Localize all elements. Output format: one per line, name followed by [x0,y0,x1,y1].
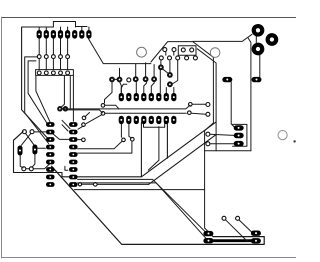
trapezoid circle stubs [165,52,167,56]
outline right of loop [76,26,88,28]
pad [69,152,78,157]
pad [69,122,78,127]
via [101,112,105,116]
wire [120,82,122,93]
circle stubs bottom right [226,220,248,241]
circles near right box [188,103,210,146]
left vertical trace 2 [25,57,49,144]
drill hole [278,131,287,140]
pad [69,182,78,187]
vertical oval pads left [18,145,38,156]
wire [38,147,46,149]
via [181,48,185,52]
right side verticals [205,58,214,237]
wire [119,68,121,77]
wire [34,131,46,133]
diagonal pad8 to mid horizontal [89,39,151,64]
via [29,167,33,171]
donut pad [118,78,122,82]
donut row stubs up [135,64,137,77]
pad [164,116,169,124]
wire [153,65,155,78]
donut pad [110,78,114,82]
pad [46,152,55,157]
wire [52,39,54,55]
pad holes [226,79,228,81]
wire [53,134,69,140]
pad [69,167,78,172]
wire [78,183,206,238]
via [94,183,98,187]
wire from left pad down to box pad [231,82,235,128]
frame left [1,17,3,258]
DIP top stubs [121,84,127,93]
wire [88,27,90,31]
pad [222,77,232,82]
black bus line [209,239,257,242]
pad holes [120,119,122,121]
pour outline left box [14,132,142,177]
left big cluster columns [46,122,55,187]
pad [171,93,176,101]
via [22,130,26,134]
big drill holes [137,47,220,57]
pad [134,93,139,101]
pad [69,130,78,135]
via [122,138,126,142]
via [159,56,163,60]
via [206,103,210,107]
pad [72,30,77,39]
wire [173,52,175,56]
pad [234,141,244,146]
pad [46,122,55,127]
wire [98,183,149,185]
pad holes [19,150,21,152]
via [131,137,135,141]
pad row 1: 8 vertical oval pads y=34.3 [37,30,92,39]
wire [145,63,147,77]
wire [192,103,205,105]
via [64,107,68,111]
wire [239,220,253,233]
pad [46,175,55,180]
wire [81,27,83,31]
pad [69,145,78,150]
bottom horizontal runs [78,179,206,231]
pad [69,160,78,165]
wire [85,113,90,117]
wire [135,82,137,94]
via [163,48,167,52]
wire [62,120,70,128]
small circles left cluster [22,104,134,187]
via row stubs to ladder [38,59,40,70]
inner box around pads [233,124,247,146]
pad [164,93,169,101]
line to donut1 [193,34,252,41]
via [188,111,192,115]
wire [172,60,178,84]
donut pad [159,65,163,69]
pad [156,93,161,101]
pad [46,167,55,172]
wire [67,59,69,70]
pad [46,137,55,142]
pad [251,231,261,236]
trace loop over pads3-6 [53,22,75,28]
big donut pads top right [254,26,276,53]
wire [120,124,122,137]
wire [69,76,71,109]
via [236,216,240,220]
wire [26,168,29,170]
donut pad [254,26,263,35]
ring pads mid-left [58,107,67,111]
wire [78,139,81,141]
pad [156,116,161,124]
wire [197,49,216,151]
wire [65,166,68,170]
pad [119,93,124,101]
wire [105,82,113,103]
donut pad [152,77,156,81]
wire [32,155,35,168]
wire [72,76,74,121]
via [137,47,147,57]
wire [169,61,171,73]
pad [119,116,124,124]
via [82,138,86,142]
frame top [2,17,296,19]
pour diagonal A [142,122,216,177]
via [22,167,26,171]
wire [159,69,161,93]
wire [165,88,167,94]
pad [203,238,213,243]
via [206,132,210,136]
wire [45,59,47,70]
via [222,216,226,220]
pad [203,231,213,236]
via [82,116,86,120]
pad [141,116,146,124]
wire [160,60,162,65]
wire [67,27,69,31]
pad [126,93,131,101]
trapezoid circles [159,48,197,60]
right box bottom [205,150,251,152]
wire [210,143,234,145]
middle horizontal run A [62,105,190,109]
via [78,183,81,186]
pad [32,145,37,155]
pad [126,116,131,124]
wire [52,59,54,70]
wire [162,69,168,74]
via row y=56.6 [37,55,69,59]
donut pad [127,78,131,82]
wire [14,132,24,141]
pour descent from DIP [166,124,168,158]
pad [46,182,55,187]
pad holes [72,124,74,126]
wire [60,59,62,70]
via [293,140,295,142]
pad [65,30,70,39]
via [206,142,210,146]
trapezoid cluster outline [151,42,214,62]
wire [78,141,132,153]
wire [60,39,62,55]
wire [20,156,23,168]
wire [82,183,93,185]
donut3 wire to pad [259,55,261,78]
via [37,71,41,75]
pad [141,93,146,101]
via [210,48,220,58]
pad [171,116,176,124]
wire [129,124,131,138]
donut pads above DIP [110,65,172,86]
ladder verticals to ring pads [61,76,65,108]
pour diagonal B [149,135,217,185]
pour outline top-left corner [22,27,54,140]
donut pad [168,82,172,86]
left cluster wires [26,133,34,145]
wire [45,27,47,31]
pad [44,30,49,39]
pad [46,130,55,135]
branch from circle 103,105.4 [105,105,119,109]
pad [234,133,244,138]
pour box right edge [140,123,142,177]
frame bottom [2,257,297,259]
via [101,104,105,108]
wire drops to pad row1 [38,27,40,31]
wire [33,163,50,169]
donut pad [168,73,172,77]
wire [67,39,69,55]
pad holes [255,232,257,234]
wire [114,78,117,80]
donut pad [268,35,277,44]
via [189,103,193,107]
wire [173,88,175,94]
pad [18,146,23,156]
via [206,112,210,116]
pad [58,30,63,39]
wires circles to box pads [210,134,234,135]
pad [51,30,56,39]
wire [62,125,68,131]
pad holes [49,124,51,126]
right middle pads [222,77,261,146]
ladder rectangle [36,70,74,76]
wire [144,122,165,127]
middle run B from ring2 [67,110,102,113]
wire [192,113,206,114]
via [82,123,86,127]
DIP bottom wires to left cluster [78,141,122,149]
pad holes [38,33,40,35]
diagonal circle(103,113) to circle(84.8,124.8) [86,115,101,124]
via [37,55,41,59]
wire [21,133,31,145]
pad [134,116,139,124]
wire [45,39,47,55]
run C: circle(103,113.4) to right circle [105,112,186,114]
wire [248,38,251,151]
pad [79,30,84,39]
wire [144,82,147,94]
left vertical trace 3 [28,61,48,126]
pad holes [120,96,122,98]
wires pads row1 down to via row [38,39,40,55]
pad [149,116,154,124]
wire [75,189,205,191]
pad [37,30,42,39]
wire [148,127,159,171]
pad [234,125,244,130]
via [58,107,62,111]
donut pad [134,77,138,81]
pad holes [208,233,210,235]
pad [149,93,154,101]
donut pad [254,45,263,54]
ladder circles y=72.9 [37,71,69,75]
pad [46,160,55,165]
pad [69,137,78,142]
bottom right cluster pads [203,231,261,244]
wire [78,126,83,129]
inner rect [178,46,196,56]
long black diagonal to bottom bus [52,166,265,244]
wire [151,82,154,94]
pad [69,175,78,180]
donut pad [144,77,148,81]
via [30,130,34,134]
pad [251,238,261,243]
pad [86,30,91,39]
DIP-16 pads [119,93,177,124]
pad [252,77,262,82]
wire [60,27,62,31]
left vertical trace 4 [36,76,51,123]
wire [255,37,257,44]
pad [46,145,55,150]
pad holes [238,127,240,129]
